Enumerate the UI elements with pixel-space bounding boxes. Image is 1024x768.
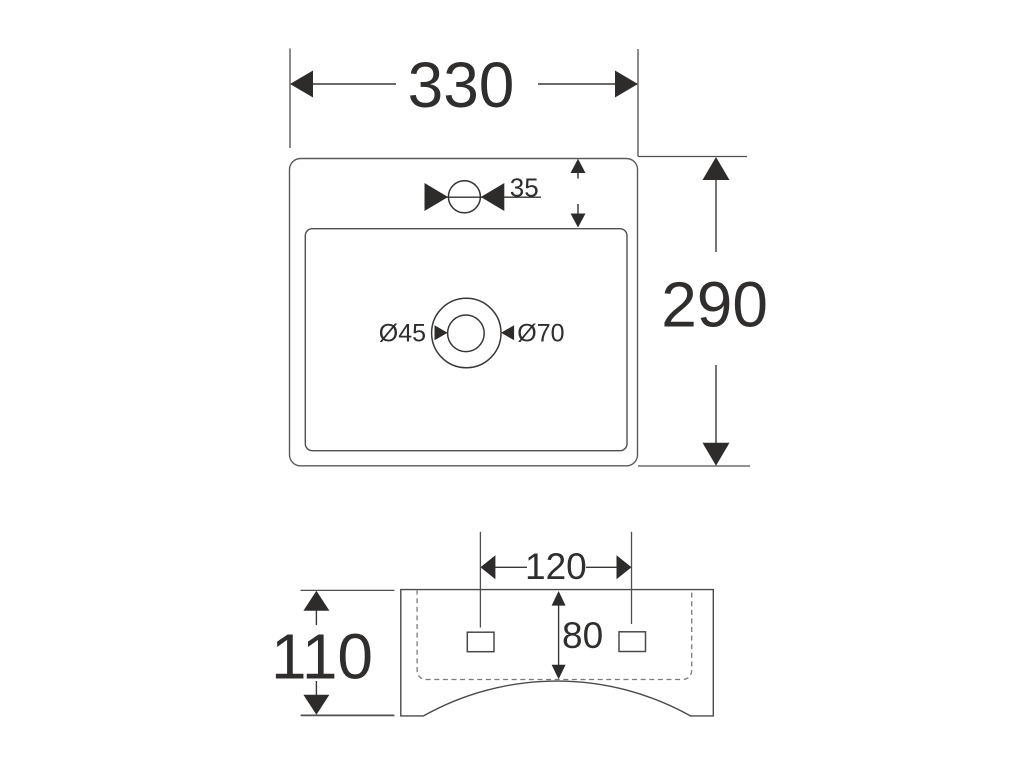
left mounting hole xyxy=(467,632,494,652)
dim 330: left arrowhead xyxy=(290,71,313,98)
faucet hole circle xyxy=(448,181,480,213)
dim 330: right arrowhead xyxy=(615,71,638,98)
front view: body outline with arch cutout xyxy=(401,590,714,716)
svg-text:35: 35 xyxy=(510,172,539,202)
top view: basin outer rim xyxy=(290,159,638,466)
svg-text:110: 110 xyxy=(271,621,373,693)
dim 330: line segments xyxy=(311,83,396,85)
dim 290: bottom extension line xyxy=(638,465,750,467)
dim 110: down arrowhead xyxy=(303,695,329,715)
dim 110: top extension line xyxy=(301,589,395,591)
dim 80: stem xyxy=(558,604,560,666)
dim 110: up arrowhead xyxy=(303,591,329,611)
dim 330: left extension line xyxy=(289,49,291,149)
dim 120: right arrowhead xyxy=(617,555,632,579)
dim 80: down arrowhead xyxy=(552,665,566,680)
svg-text:Ø45: Ø45 xyxy=(379,319,426,347)
dim 110: line segments xyxy=(315,610,317,625)
front view: hidden bowl dashed outline xyxy=(417,590,692,680)
svg-text:80: 80 xyxy=(562,615,603,656)
dim 330: right extension line xyxy=(637,49,639,157)
svg-text:290: 290 xyxy=(661,269,768,341)
svg-text:330: 330 xyxy=(408,49,515,121)
dim 290: top extension line xyxy=(638,156,747,158)
svg-text:120: 120 xyxy=(525,546,587,587)
dim 35 vertical: top arrow xyxy=(571,159,586,173)
dim 35 vertical: bottom arrow xyxy=(577,204,579,215)
dim 290: line segments xyxy=(715,179,717,252)
drain outer circle xyxy=(432,298,501,367)
dim 290: down arrowhead xyxy=(703,443,730,466)
faucet centerline xyxy=(427,196,541,198)
faucet right pointer xyxy=(481,183,505,211)
dim 120: left arrowhead xyxy=(480,555,495,579)
svg-text:Ø70: Ø70 xyxy=(517,319,564,347)
faucet left pointer xyxy=(425,183,449,211)
pointer for diameter 70 xyxy=(501,325,514,340)
right mounting hole xyxy=(619,632,646,652)
top view: basin inner bowl xyxy=(305,229,627,451)
pointer for diameter 45 xyxy=(435,325,448,340)
dim 80: up arrowhead xyxy=(552,591,566,606)
dim 120: line segments xyxy=(494,566,527,568)
drain inner circle xyxy=(448,315,485,352)
dim 110: bottom extension line xyxy=(301,714,395,716)
dim 120: right extension line xyxy=(631,532,633,624)
dim 290: up arrowhead xyxy=(703,157,730,180)
dim 120: left extension line xyxy=(479,532,481,628)
